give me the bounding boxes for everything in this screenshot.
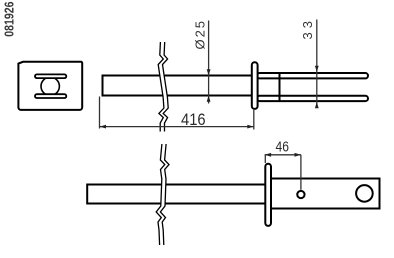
svg-text:081926: 081926 [3,1,17,36]
svg-text:46: 46 [276,140,289,156]
svg-text:416: 416 [181,110,206,129]
svg-text:Ø25: Ø25 [193,21,208,50]
